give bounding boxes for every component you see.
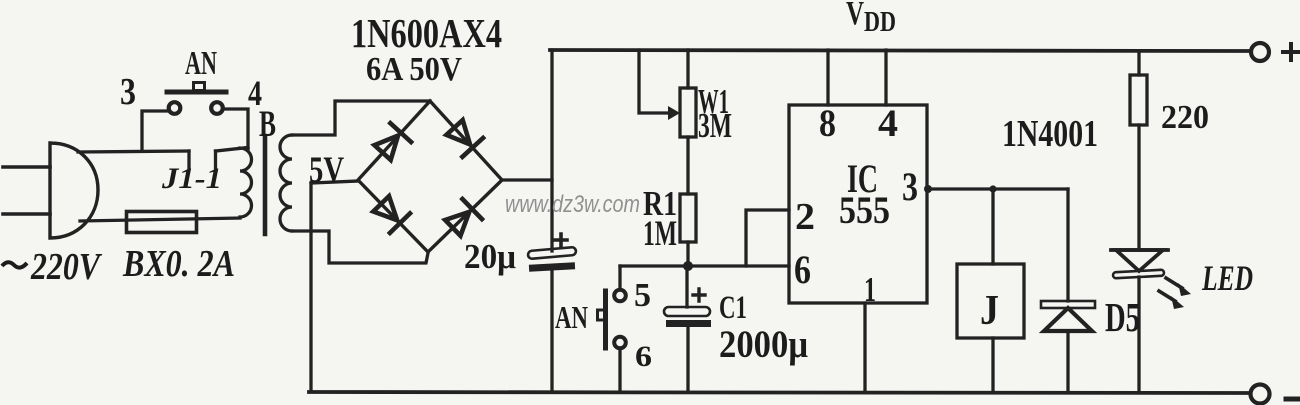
- svg-text:220V: 220V: [30, 246, 102, 288]
- transformer core: [263, 136, 268, 234]
- wire relay J bottom lead: [991, 338, 994, 392]
- pushbutton AN2 knob: [598, 310, 606, 320]
- junction dot pin3 at IC: [924, 185, 932, 193]
- wire node line pin6 (trigger node): [620, 264, 789, 267]
- potentiometer W1 wiper arrowhead: [668, 106, 680, 120]
- wire diode D5 bottom lead: [1066, 331, 1069, 392]
- wire LED bottom lead: [1137, 277, 1140, 392]
- relay contact J1-1 right terminal: [214, 151, 217, 168]
- plug P (AC mains plug): [50, 143, 98, 238]
- LED light arrow 1: [1166, 278, 1182, 288]
- svg-text:8: 8: [819, 102, 836, 145]
- LED cathode bar: [1113, 270, 1164, 279]
- wire switch terminal 4 to primary: [224, 109, 248, 149]
- capacitor C1 top plate: [664, 307, 710, 316]
- svg-text:1N4001: 1N4001: [1002, 113, 1098, 155]
- minus sign output: [1286, 397, 1300, 402]
- svg-text:3M: 3M: [698, 106, 732, 145]
- wire C1 top lead: [685, 266, 688, 307]
- svg-text:6: 6: [794, 247, 811, 292]
- LED light arrow 2: [1159, 291, 1175, 301]
- diode D5 cathode bar: [1041, 301, 1095, 308]
- wire IC pin4 to VDD: [884, 50, 887, 105]
- bridge diode D-c: [371, 194, 410, 233]
- wire secondary bottom to bridge bottom node: [292, 231, 428, 263]
- wire secondary top to bridge top node: [292, 101, 430, 135]
- wire diode D5 top lead: [1066, 189, 1069, 301]
- svg-text:6A 50V: 6A 50V: [366, 51, 462, 88]
- LED triangle: [1116, 250, 1163, 271]
- wire 220 resistor top lead: [1137, 51, 1140, 75]
- junction dot R1/C1 node: [683, 261, 693, 271]
- bridge diode D-b: [444, 118, 483, 157]
- svg-text:220: 220: [1161, 99, 1209, 136]
- pushbutton AN bar: [167, 90, 226, 95]
- pushbutton AN2 bar: [603, 291, 608, 348]
- wire IC pin3 output: [927, 187, 1068, 190]
- capacitor C1 bottom plate: [666, 320, 711, 327]
- wire R1 bottom to node: [686, 242, 689, 266]
- pushbutton AN2 terminal 6 circle: [614, 337, 626, 349]
- wire 5V node to bridge left: [311, 181, 358, 183]
- svg-text:6: 6: [635, 340, 652, 373]
- svg-text:LED: LED: [1201, 258, 1253, 298]
- IC 555 body U1: [789, 105, 927, 303]
- capacitor 20u top plate: [528, 247, 577, 259]
- svg-text:V: V: [846, 0, 864, 32]
- wire plug bottom through fuse to primary bottom: [80, 218, 240, 221]
- capacitor 20u plus sign: [555, 234, 567, 246]
- bottom rail negative: [309, 392, 1250, 393]
- svg-text:2000μ: 2000μ: [719, 323, 808, 366]
- output terminal plus: [1251, 43, 1269, 61]
- wire 220 to LED: [1137, 125, 1140, 250]
- wire main vertical lower: [550, 270, 553, 392]
- wire bridge positive node to main vertical: [502, 178, 552, 181]
- wire W1 to R1: [686, 137, 689, 194]
- svg-text:AN: AN: [555, 299, 588, 335]
- diode D5 triangle: [1044, 308, 1092, 331]
- svg-text:1: 1: [864, 270, 876, 309]
- plus sign output: [1283, 44, 1298, 60]
- svg-text:5V: 5V: [309, 150, 344, 191]
- wire switch terminal 3 jog: [142, 111, 168, 151]
- wire IC pin8 to VDD: [826, 50, 829, 105]
- svg-text:555: 555: [839, 189, 890, 232]
- pushbutton AN2 terminal 5 circle: [614, 290, 626, 302]
- wire bridge negative node to bottom rail: [309, 183, 312, 391]
- pushbutton AN knob: [194, 83, 205, 91]
- svg-text:20μ: 20μ: [464, 237, 516, 276]
- output terminal minus: [1251, 385, 1270, 404]
- resistor R1 body: [680, 194, 696, 242]
- transformer T primary winding: [240, 148, 252, 217]
- relay contact J1-1 left terminal: [187, 151, 190, 168]
- svg-text:5: 5: [634, 277, 651, 314]
- capacitor 20u bottom plate: [529, 262, 575, 271]
- pushbutton AN terminal 4 circle: [211, 102, 223, 114]
- bridge rectifier diamond: [358, 101, 502, 252]
- svg-text:www.dz3w.com: www.dz3w.com: [505, 191, 640, 218]
- svg-text:C1: C1: [719, 290, 747, 326]
- svg-text:DD: DD: [864, 7, 896, 38]
- wire IC pin1 to ground rail: [863, 303, 866, 392]
- svg-text:AN: AN: [185, 45, 217, 82]
- potentiometer W1 body: [680, 88, 696, 137]
- junction dot J branch: [989, 185, 996, 192]
- svg-text:D5: D5: [1105, 294, 1140, 340]
- wire plug top to switch node: [78, 151, 189, 152]
- svg-text:B: B: [259, 104, 276, 145]
- svg-text:J1-1: J1-1: [161, 162, 222, 195]
- wire pushbutton AN2 top: [618, 266, 621, 290]
- svg-text:3: 3: [120, 71, 136, 113]
- wire main vertical upper: [550, 50, 553, 251]
- svg-text:1N600AX4: 1N600AX4: [351, 10, 502, 56]
- wire W1 wiper from VDD: [639, 50, 674, 113]
- resistor 220 body: [1130, 75, 1147, 125]
- svg-text:J: J: [980, 288, 999, 334]
- wire IC pin2: [746, 210, 789, 266]
- plug prong bottom: [3, 212, 50, 216]
- wire C1 bottom lead: [686, 327, 689, 392]
- wire W1 top lead: [686, 50, 689, 88]
- bridge diode D-a: [372, 123, 411, 162]
- wire pushbutton AN2 bottom: [618, 348, 621, 392]
- plug prong top: [3, 165, 50, 169]
- svg-text:4: 4: [878, 102, 898, 145]
- svg-text:BX0. 2A: BX0. 2A: [122, 243, 235, 285]
- label ~220V: [2, 262, 27, 267]
- svg-text:3: 3: [902, 164, 918, 209]
- fuse B×0.2A body: [127, 212, 197, 233]
- svg-text:2: 2: [795, 196, 815, 238]
- relay J coil body: [957, 264, 1024, 338]
- top rail VDD: [550, 50, 1251, 51]
- capacitor C1 plus sign: [693, 289, 705, 301]
- transformer secondary winding 5V: [280, 135, 292, 231]
- wire contact to transformer primary top: [216, 148, 249, 152]
- bridge diode D-d: [443, 199, 482, 238]
- svg-text:1M: 1M: [643, 213, 677, 253]
- wire relay J top lead: [991, 189, 994, 264]
- pushbutton AN terminal 3 circle: [169, 102, 181, 114]
